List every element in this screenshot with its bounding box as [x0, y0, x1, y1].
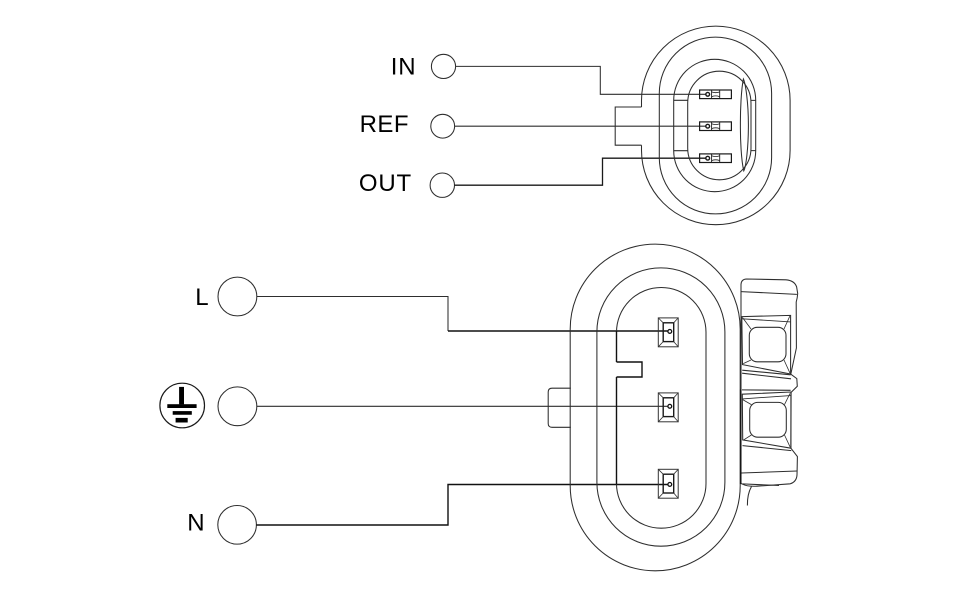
latch window 1 top facet line [742, 319, 791, 322]
signal connector outer shell [642, 26, 791, 225]
signal connector inner shell [674, 59, 756, 191]
latch tail [747, 487, 751, 506]
latch window 1 hole [749, 327, 786, 362]
power connector left tab [548, 388, 571, 427]
cavity tick marks right [751, 100, 756, 150]
latch bottom wing divider [742, 471, 798, 473]
cavity key bus [616, 331, 618, 484]
terminal circle REF [431, 114, 455, 138]
latch top block divider [741, 292, 797, 295]
svg-text:N: N [187, 509, 204, 536]
latch window 2 chamfers [743, 393, 791, 447]
terminal circle earth [218, 387, 257, 426]
wire IN [456, 66, 706, 94]
svg-text:IN: IN [391, 53, 417, 80]
cavity tick marks left [674, 100, 688, 150]
wire REF [455, 125, 706, 127]
terminal circle OUT [430, 173, 454, 197]
cavity keyway notch [617, 362, 643, 377]
pin OUT (bottom) [700, 154, 732, 163]
pin earth (vertical frame) [658, 393, 678, 422]
pin REF (middle) [700, 122, 732, 131]
pin IN (top) [700, 90, 732, 99]
pin N (vertical frame) [658, 469, 678, 498]
latch lower extra line [743, 446, 792, 451]
terminal circle IN [431, 54, 455, 78]
power connector cavity shell [617, 288, 707, 529]
terminal circle L [218, 277, 257, 316]
latch bottom wing edge [743, 484, 780, 486]
svg-text:REF: REF [360, 111, 410, 138]
latch mid band lines [742, 370, 791, 390]
power connector outer shell [570, 244, 740, 571]
wire N [256, 485, 668, 526]
latch window 2 hole [750, 402, 787, 437]
latch window 2 top facet line [742, 396, 790, 399]
latch window 1 frame [742, 315, 791, 374]
svg-text:OUT: OUT [359, 170, 412, 197]
protective earth symbol [160, 383, 205, 428]
power connector second shell [597, 268, 725, 546]
pin L (vertical frame) [658, 318, 678, 347]
signal connector second shell [659, 37, 771, 214]
svg-text:L: L [195, 284, 208, 311]
latch window 2 frame [742, 392, 791, 448]
latch body outline [741, 279, 798, 486]
wire L [257, 297, 448, 332]
terminal circle N [218, 506, 257, 545]
signal connector key tab [615, 107, 641, 145]
wire earth [257, 405, 669, 407]
wire OUT [455, 158, 706, 185]
latch left wall dark edge [740, 390, 742, 485]
signal connector cavity [688, 71, 751, 180]
blade key crescent [740, 79, 748, 171]
latch window 1 chamfers [743, 316, 791, 373]
